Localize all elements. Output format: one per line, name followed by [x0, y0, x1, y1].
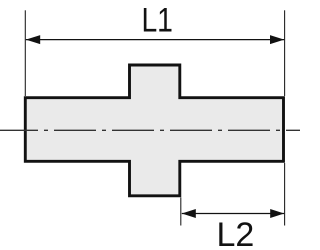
svg-text:L2: L2	[216, 216, 254, 250]
svg-text:L1: L1	[141, 1, 173, 39]
